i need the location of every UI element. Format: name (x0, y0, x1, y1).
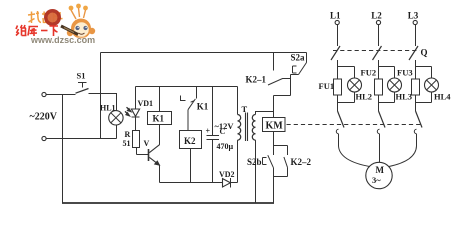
lamp HL1 loop wires (101, 94, 117, 139)
svg-text:S1: S1 (77, 71, 86, 81)
wire L2 drop (378, 25, 380, 47)
wire split bar phase1 (338, 67, 355, 80)
lamp HL3 (388, 67, 402, 103)
transformer T core (246, 113, 248, 142)
wire L1 drop (337, 25, 339, 47)
terminal L3 (413, 20, 417, 24)
wire top supply rail (101, 52, 307, 54)
transformer T secondary winding (252, 115, 255, 141)
wire motor lead right (388, 146, 416, 167)
transformer T primary winding (238, 115, 241, 141)
wire join bar phase3 (416, 103, 432, 112)
switch Q blade 1 (331, 46, 340, 67)
contactor coil KM (263, 118, 286, 132)
switch S1 (76, 83, 101, 94)
svg-text:L3: L3 (408, 11, 419, 21)
wire secondary top lead (256, 112, 274, 115)
wire lower terminal lead (46, 138, 117, 140)
svg-text:FU3: FU3 (397, 67, 413, 77)
svg-text:K2: K2 (184, 136, 196, 146)
wire junction bar (274, 96, 291, 118)
lamp HL1 (109, 111, 123, 125)
svg-text:FU1: FU1 (319, 81, 335, 91)
terminal upper 220V (42, 92, 46, 96)
relay coil K2 (180, 131, 202, 183)
contact K1 (188, 87, 197, 131)
wire base lead (137, 154, 149, 156)
button S2a (291, 53, 307, 75)
switch Q blade 3 (409, 46, 418, 67)
svg-text:51: 51 (123, 139, 131, 148)
contact K2-1 (268, 75, 291, 96)
svg-text:T: T (242, 104, 248, 114)
svg-text:+: + (206, 126, 211, 135)
wire join bar phase2 (379, 103, 395, 112)
svg-text:M: M (376, 165, 385, 175)
logo watermark dzsc (27, 10, 67, 26)
L mark (181, 96, 186, 101)
wire join bar phase1 (338, 103, 355, 112)
terminal L2 (376, 20, 380, 24)
contact KM phase2 (377, 111, 385, 163)
svg-text:S2b: S2b (247, 157, 262, 167)
svg-text:HL3: HL3 (396, 91, 413, 101)
wire left vertical from S1 junction (100, 53, 102, 139)
wire outer bottom rail (62, 202, 274, 204)
transformer T primary line (237, 87, 239, 183)
contact KM phase1 (336, 111, 344, 146)
svg-text:VD1: VD1 (138, 99, 154, 108)
terminal L1 (335, 20, 339, 24)
svg-text:3~: 3~ (372, 175, 381, 185)
wire motor lead left (339, 146, 371, 167)
fuse FU3 (412, 79, 420, 103)
svg-text:HL1: HL1 (100, 104, 116, 113)
lamp HL4 (425, 67, 439, 103)
button S2b (263, 146, 274, 177)
svg-text:VD2: VD2 (219, 170, 235, 179)
svg-text:L2: L2 (371, 11, 382, 21)
contact KM phase3 (414, 111, 422, 146)
svg-text:~220V: ~220V (30, 112, 58, 123)
wire upper terminal lead (46, 94, 76, 96)
svg-text:KM: KM (266, 121, 284, 132)
svg-text:C: C (220, 127, 226, 136)
svg-text:K2–1: K2–1 (246, 75, 267, 85)
svg-text:470µ: 470µ (217, 142, 234, 151)
svg-text:FU2: FU2 (361, 67, 377, 77)
wire L3 drop (415, 25, 417, 47)
wire contactor branch vertical (273, 53, 275, 71)
svg-text:L1: L1 (330, 11, 341, 21)
svg-text:Q: Q (421, 47, 428, 57)
fuse FU1 (334, 79, 342, 103)
transistor V (149, 145, 160, 166)
fuse FU2 (375, 79, 383, 103)
svg-text:V: V (144, 139, 150, 148)
svg-text:K1: K1 (197, 102, 209, 112)
wire secondary bottom lead (255, 140, 257, 203)
wire neutral drop (62, 95, 64, 204)
motor M 3ph (366, 162, 392, 188)
lamp HL2 (348, 67, 362, 103)
switch Q blade 2 (373, 46, 382, 67)
svg-text:S2a: S2a (291, 52, 306, 62)
wire split bar phase2 (379, 67, 395, 80)
wire inner bottom rail (160, 182, 238, 184)
dashed link KM to contacts (287, 124, 422, 126)
svg-text:K2–2: K2–2 (291, 157, 312, 167)
wire emitter lead (159, 165, 161, 183)
terminal lower 220V (42, 136, 46, 140)
svg-text:HL4: HL4 (434, 91, 451, 101)
contact K2-2 (284, 146, 288, 177)
wire split bar top (274, 145, 288, 147)
wire split bar bottom (274, 176, 288, 178)
svg-text:K1: K1 (153, 114, 165, 124)
wire KM bottom lead (273, 132, 275, 146)
photodiode VD1 (125, 87, 140, 131)
wire to bottom rail (273, 177, 275, 204)
dashed link Q (333, 50, 420, 52)
svg-text:HL2: HL2 (356, 91, 373, 101)
relay coil K1 (148, 87, 172, 125)
resistor R 51 (133, 131, 140, 155)
diode VD2 (223, 178, 231, 188)
capacitor C 470u (207, 87, 220, 183)
wire inner top rail (136, 86, 238, 88)
wire collector lead (159, 125, 161, 145)
wire split bar phase3 (416, 67, 432, 80)
